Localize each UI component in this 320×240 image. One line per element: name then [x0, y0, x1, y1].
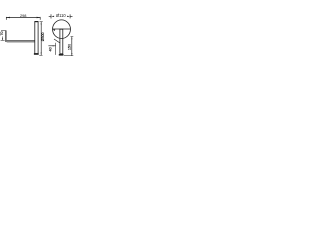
witness line left of stem [55, 43, 57, 55]
diameter dim right tick [69, 14, 71, 18]
leader line to stem [54, 39, 60, 43]
dimension 298 left tick [5, 17, 7, 20]
stem (front view) [60, 29, 63, 54]
diameter dim left tick [50, 14, 52, 18]
left dim bottom tick [1, 39, 5, 41]
diameter dim left tail [49, 15, 51, 17]
right view dim down arrowhead [71, 53, 72, 56]
small horizontal dim line [48, 45, 55, 47]
diameter dim right tail [70, 15, 72, 17]
svg-text:150: 150 [67, 44, 71, 50]
svg-text:70: 70 [0, 32, 4, 36]
right view dim bottom tick [64, 55, 73, 57]
dimension 298 right tick [39, 17, 41, 20]
left dim line [2, 36, 4, 40]
right view dim line [71, 37, 73, 56]
right view dim top tick [71, 36, 74, 38]
centre line end mark [53, 29, 55, 31]
small horizontal dim arrowhead [53, 45, 56, 46]
right vertical dim line [40, 22, 42, 55]
diameter dim right arrowhead [67, 16, 70, 17]
circle horizontal centre line [53, 28, 71, 30]
right view dim up arrowhead [71, 37, 72, 40]
wall plate (side view) [5, 30, 7, 42]
stem foot [59, 54, 64, 56]
dimension 298 left arrowhead [6, 17, 9, 19]
right vertical dim ticks [39, 22, 42, 56]
right vertical dim up arrowhead [41, 22, 42, 25]
circle (front view) [53, 20, 71, 39]
left dim top tick [1, 30, 6, 32]
left dim bottom arrowhead [2, 38, 3, 40]
right vertical dim down arrowhead [41, 53, 42, 56]
dimension 298 line [6, 17, 40, 19]
svg-text:298: 298 [20, 13, 27, 18]
rod (side view) [35, 21, 38, 53]
svg-text:Ø110: Ø110 [56, 13, 66, 18]
arm bottom edge [7, 41, 35, 43]
rod foot [34, 53, 39, 55]
dimension 298 right arrowhead [37, 17, 41, 19]
arm top edge [7, 39, 35, 41]
diameter dim left arrowhead [51, 16, 54, 17]
svg-text:Ø300: Ø300 [41, 33, 45, 42]
svg-text:40: 40 [49, 47, 53, 51]
rod top cap [35, 21, 39, 22]
